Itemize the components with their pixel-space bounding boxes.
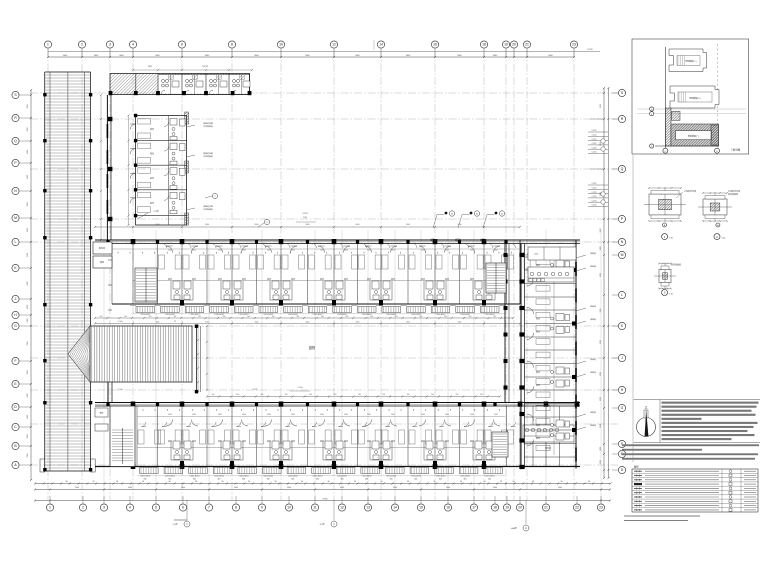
panel right dashed axis [717, 44, 719, 148]
grid bubble N right [618, 238, 625, 245]
svg-text:3600: 3600 [218, 414, 222, 416]
west wing columns on block [134, 114, 137, 117]
courtyard west wall [196, 326, 198, 392]
svg-text:3600: 3600 [344, 250, 348, 252]
svg-text:900: 900 [370, 316, 373, 318]
svg-text:C1820+M0921: C1820+M0921 [411, 314, 421, 316]
svg-text:J: J [621, 356, 623, 360]
svg-text:900: 900 [285, 394, 288, 396]
top overall dimension line [48, 51, 600, 53]
grid bubble 10 bottom [285, 504, 292, 511]
east wing per-room beds [536, 259, 550, 265]
svg-text:900: 900 [456, 394, 459, 396]
svg-text:21: 21 [525, 43, 529, 47]
detail 1 label [662, 234, 668, 240]
svg-text:3600: 3600 [421, 250, 425, 252]
svg-text:5400: 5400 [181, 487, 185, 489]
svg-text:12: 12 [340, 506, 344, 510]
detail panel flight 3 precast stair 1 [671, 124, 719, 146]
south wing bottom wall columns [131, 464, 136, 469]
svg-text:3600: 3600 [168, 414, 172, 416]
svg-text:14: 14 [379, 43, 383, 47]
svg-text:G: G [14, 324, 17, 328]
svg-text:北: 北 [645, 406, 648, 410]
legend table [632, 469, 758, 512]
svg-text:19: 19 [505, 506, 509, 510]
north strip room partitions [135, 74, 137, 95]
grid bubble 12 bottom [338, 504, 345, 511]
grid bubble 4 top [129, 41, 136, 48]
svg-text:5400: 5400 [493, 487, 497, 489]
west wing window marks left wall [106, 124, 108, 138]
grid bubble 13 bottom [364, 504, 371, 511]
svg-text:C1820+M0921: C1820+M0921 [214, 314, 224, 316]
grid bubble 21 bottom [542, 504, 549, 511]
svg-text:F: F [14, 359, 16, 363]
svg-text:3600: 3600 [494, 250, 498, 252]
north wing dimension chains below [95, 317, 513, 319]
east wing toilet clusters [556, 260, 564, 267]
svg-text:-1.500: -1.500 [297, 387, 302, 389]
svg-text:10: 10 [279, 43, 283, 47]
svg-text:900: 900 [407, 394, 410, 396]
svg-text:C2415: C2415 [592, 135, 597, 137]
svg-text:900: 900 [236, 394, 239, 396]
svg-text:900: 900 [358, 394, 361, 396]
svg-text:3300: 3300 [600, 247, 602, 251]
svg-text:3600: 3600 [267, 414, 271, 416]
svg-text:900: 900 [346, 316, 349, 318]
svg-text:3300: 3300 [27, 319, 29, 323]
extra vertical grid lines lower rows [103, 230, 105, 500]
svg-text:1:10: 1:10 [669, 238, 673, 240]
svg-text:3600: 3600 [242, 414, 246, 416]
svg-text:3300: 3300 [600, 104, 602, 108]
grid bubble N left [12, 187, 19, 194]
svg-text:C1820+M0921: C1820+M0921 [190, 314, 200, 316]
north wing stairwell [135, 268, 157, 302]
west wing room partitions [136, 140, 187, 142]
svg-text:3600: 3600 [367, 250, 371, 252]
svg-text:9000: 9000 [306, 322, 310, 324]
svg-text:C1820+M0921: C1820+M0921 [337, 314, 347, 316]
grid bubble M right [618, 251, 625, 258]
top dimension chain [48, 56, 574, 58]
svg-text:9000: 9000 [205, 224, 209, 226]
notes wide lines [622, 444, 759, 446]
bottom overall dimension [35, 500, 610, 502]
svg-text:C2415: C2415 [592, 200, 597, 202]
svg-text:36: 36 [354, 481, 356, 483]
column detail 1 drawing [649, 194, 681, 215]
south wing west service rooms [95, 408, 108, 417]
svg-text:C1820+M0921: C1820+M0921 [485, 314, 495, 316]
grid bubble R right [618, 115, 625, 122]
svg-text:9000: 9000 [356, 224, 360, 226]
detail panel ground line [655, 145, 719, 147]
east wing leader notes [576, 255, 586, 258]
stair detail panel frame [632, 39, 749, 154]
svg-text:3300: 3300 [27, 305, 29, 309]
south wing courtyard dim chain [207, 396, 500, 398]
grid bubble 3 top [106, 41, 113, 48]
south wing corner stair [492, 432, 508, 457]
grid bubble 21 top [523, 41, 530, 48]
grid bubble 18 top [480, 41, 487, 48]
svg-text:9000: 9000 [406, 322, 410, 324]
east wing toilet zone line [553, 260, 555, 455]
svg-text:3600: 3600 [320, 250, 324, 252]
general notes text rows [662, 402, 759, 404]
svg-text:36: 36 [484, 481, 486, 483]
detail panel flight 1 precast stair 2 [669, 49, 707, 72]
north strip toilet fixtures [162, 80, 165, 83]
svg-text:16: 16 [433, 43, 437, 47]
svg-text:J: J [15, 297, 17, 301]
svg-text:4: 4 [129, 506, 131, 510]
east wing outer wall [575, 240, 577, 469]
svg-text:36: 36 [513, 481, 515, 483]
east wing entry vestibule [528, 247, 576, 260]
south wing balcony rails hatched [140, 468, 159, 474]
svg-text:36: 36 [222, 481, 224, 483]
grid bubble D right [618, 466, 625, 473]
svg-text:5400: 5400 [128, 487, 132, 489]
svg-text:3300: 3300 [600, 424, 602, 428]
bottom dimension chain 1 [35, 483, 611, 485]
svg-text:C1820+M0921: C1820+M0921 [386, 314, 396, 316]
right outer dimension chain [608, 88, 610, 478]
walkway edge lines [44, 72, 46, 471]
svg-text:9000: 9000 [255, 322, 259, 324]
grid bubble 15 bottom [417, 504, 424, 511]
panel crossing grid lines [637, 108, 746, 110]
north wing balcony rails hatched [136, 307, 155, 313]
grid bubble J right [618, 354, 625, 361]
west wing leader notes [187, 125, 195, 127]
svg-text:3300: 3300 [27, 371, 29, 375]
svg-text:8: 8 [235, 506, 237, 510]
svg-text:900: 900 [149, 316, 152, 318]
grid bubble B left [12, 442, 19, 449]
svg-text:3300: 3300 [27, 228, 29, 232]
north strip top dim ticks [133, 69, 252, 71]
svg-text:1: 1 [47, 43, 49, 47]
svg-text:4: 4 [132, 43, 134, 47]
svg-text:900: 900 [198, 316, 201, 318]
svg-text:36: 36 [588, 481, 590, 483]
svg-text:3300: 3300 [27, 454, 29, 458]
east wing washroom top [528, 267, 574, 282]
svg-text:3300: 3300 [27, 128, 29, 132]
svg-text:Q: Q [621, 167, 624, 171]
grid bubble S right [618, 89, 625, 96]
north arrow compass [637, 418, 656, 437]
svg-text:C1820+M0921: C1820+M0921 [165, 314, 175, 316]
svg-text:900: 900 [260, 394, 263, 396]
east wing north stairwell [486, 263, 506, 293]
entrance stair side dim chain [197, 326, 199, 392]
grid bubble J left [12, 295, 19, 302]
east wing room partitions [525, 256, 577, 258]
svg-text:9000: 9000 [205, 322, 209, 324]
north wing corridor wall [95, 239, 580, 241]
svg-text:21: 21 [544, 506, 548, 510]
grid bubble 20 top [510, 41, 517, 48]
grid bubble 6 bottom [179, 504, 186, 511]
west wing inner dim chain [128, 116, 130, 226]
svg-text:3300: 3300 [600, 340, 602, 344]
svg-text:900: 900 [309, 394, 312, 396]
svg-text:3300: 3300 [27, 203, 29, 207]
svg-text:-1.500: -1.500 [117, 321, 122, 323]
svg-text:M: M [621, 253, 624, 257]
detail 3 label [662, 290, 668, 296]
svg-text:20: 20 [512, 43, 516, 47]
svg-text:6: 6 [182, 506, 184, 510]
svg-text:3300: 3300 [600, 447, 602, 451]
svg-text:900: 900 [382, 394, 385, 396]
column detail 3 drawing [659, 270, 671, 283]
grid bubble Q left [12, 137, 19, 144]
grid bubble 22 bottom [573, 504, 580, 511]
north wing room band bottom wall [112, 303, 520, 305]
panel left axis wall [665, 47, 667, 148]
svg-text:900: 900 [395, 316, 398, 318]
svg-text:C2415: C2415 [592, 147, 597, 149]
west corridor door marks [108, 259, 112, 261]
svg-text:3300: 3300 [27, 253, 29, 257]
grid bubble G left [12, 322, 19, 329]
svg-text:2100: 2100 [303, 217, 307, 219]
svg-text:36: 36 [328, 481, 330, 483]
grid bubble G right [618, 404, 625, 411]
svg-text:900: 900 [431, 394, 434, 396]
svg-text:36: 36 [500, 481, 502, 483]
grid bubble 9 bottom [258, 504, 265, 511]
east wing corridor wall [520, 244, 522, 469]
svg-text:7: 7 [208, 506, 210, 510]
grid bubble 18 bottom [491, 504, 498, 511]
svg-text:16: 16 [446, 506, 450, 510]
svg-text:3300: 3300 [600, 229, 602, 233]
east wing courtyard wall columns [504, 253, 508, 257]
svg-text:3300: 3300 [27, 415, 29, 419]
svg-text:3300: 3300 [27, 105, 29, 109]
svg-text:900: 900 [247, 316, 250, 318]
grid bubble F right [618, 440, 625, 447]
courtyard inner dim chain [206, 326, 208, 390]
grid bubble 19 top [502, 41, 509, 48]
svg-text:3600: 3600 [291, 414, 295, 416]
west wing toilet zone divider [168, 116, 170, 226]
svg-text:C1820+M0921: C1820+M0921 [460, 314, 470, 316]
grid bubble P left [12, 159, 19, 166]
svg-text:3600: 3600 [391, 414, 395, 416]
detail panel side markers [650, 107, 654, 111]
bottom dimension chain 2 [35, 489, 610, 491]
grid bubble Q right [618, 165, 625, 172]
svg-text:5400: 5400 [446, 487, 450, 489]
svg-text:87300: 87300 [323, 499, 328, 501]
south wing corner washroom [523, 425, 574, 442]
svg-text:C2415: C2415 [302, 213, 308, 215]
svg-text:900: 900 [124, 316, 127, 318]
svg-text:C2415: C2415 [592, 143, 597, 145]
covered walkway west strip with pavement hatch [45, 72, 91, 471]
svg-text:5400: 5400 [393, 487, 397, 489]
grand entrance stair treads [90, 326, 192, 382]
svg-text:1: 1 [49, 506, 51, 510]
svg-text:5400: 5400 [340, 487, 344, 489]
svg-text:9000: 9000 [458, 224, 462, 226]
svg-text:9000: 9000 [255, 224, 259, 226]
grid bubble S left [12, 91, 19, 98]
grid bubble 8 bottom [232, 504, 239, 511]
svg-text:G: G [621, 406, 624, 410]
window leader clusters right chain [588, 131, 608, 133]
detail 2 label [714, 234, 720, 240]
grid bubble 5 bottom [152, 504, 159, 511]
svg-text:47700: 47700 [587, 49, 593, 51]
svg-text:C2415: C2415 [592, 205, 597, 207]
grid bubble 10 top [277, 41, 284, 48]
svg-text:2: 2 [82, 506, 84, 510]
grid bubble F left [12, 357, 19, 364]
svg-text:3600: 3600 [242, 250, 246, 252]
svg-text:3600: 3600 [291, 250, 295, 252]
svg-text:C3: C3 [174, 321, 176, 323]
svg-text:9000: 9000 [406, 224, 410, 226]
svg-text:3600: 3600 [470, 414, 474, 416]
svg-text:3600: 3600 [192, 414, 196, 416]
grid bubble E right [618, 450, 625, 457]
svg-text:10: 10 [287, 506, 291, 510]
bottom notes under legend [624, 515, 700, 517]
svg-text:23: 23 [572, 43, 576, 47]
grid bubble 2 bottom [79, 504, 86, 511]
east wing courtyard wall [504, 244, 506, 403]
north service strip hatched [110, 74, 250, 95]
east wing window marks outer wall [575, 262, 577, 276]
west wing toilet fixtures [170, 119, 177, 126]
svg-text:36: 36 [275, 481, 277, 483]
svg-text:20: 20 [518, 506, 522, 510]
svg-text:3600: 3600 [494, 414, 498, 416]
svg-text:C1820+M0921: C1820+M0921 [313, 314, 323, 316]
svg-text:3600: 3600 [391, 250, 395, 252]
svg-text:9000: 9000 [306, 224, 310, 226]
south wing under-wall sill line [137, 416, 505, 418]
svg-text:5400: 5400 [287, 487, 291, 489]
grid bubble 16 bottom [444, 504, 451, 511]
grid bubble 17 bottom [470, 504, 477, 511]
grid bubble L right [618, 291, 625, 298]
grid bubble 20 bottom [516, 504, 523, 511]
grid bubble 3 bottom [100, 504, 107, 511]
svg-text:C2415: C2415 [592, 192, 597, 194]
svg-text:9: 9 [261, 506, 263, 510]
svg-text:3600: 3600 [320, 414, 324, 416]
svg-text:900: 900 [480, 394, 483, 396]
north side porch leader markers [445, 212, 448, 215]
north side door arcs on corridor wall [429, 239, 437, 241]
svg-text:18: 18 [482, 43, 486, 47]
grid bubble H right [618, 386, 625, 393]
svg-text:Q: Q [14, 139, 17, 143]
grid bubble 2 top [78, 41, 85, 48]
svg-text:1:10: 1:10 [722, 238, 726, 240]
svg-text:13: 13 [366, 506, 370, 510]
grid bubble 4 bottom [126, 504, 133, 511]
section flag 3 [525, 500, 527, 524]
svg-text:5400: 5400 [558, 487, 562, 489]
grid bubble P right [618, 215, 625, 222]
grid bubble 23 top [570, 41, 577, 48]
column detail 2 drawing [703, 199, 727, 215]
grid bubble 19 bottom [503, 504, 510, 511]
svg-text:36: 36 [142, 481, 144, 483]
svg-text:庭院: 庭院 [309, 345, 316, 350]
svg-text:36: 36 [561, 481, 563, 483]
grid bubble K right [618, 322, 625, 329]
west wing smoke shafts [185, 112, 189, 124]
svg-text:900: 900 [321, 316, 324, 318]
svg-text:6: 6 [181, 43, 183, 47]
svg-text:5400: 5400 [234, 487, 238, 489]
svg-text:3600: 3600 [367, 414, 371, 416]
svg-text:36: 36 [301, 481, 303, 483]
svg-text:900: 900 [272, 316, 275, 318]
walkway junction columns [43, 93, 46, 96]
svg-text:900: 900 [493, 316, 496, 318]
svg-text:12: 12 [332, 43, 336, 47]
svg-text:900: 900 [444, 316, 447, 318]
grid bubble D left [12, 403, 19, 410]
svg-text:C1820+M0921: C1820+M0921 [436, 314, 446, 316]
svg-text:C2415: C2415 [592, 188, 597, 190]
south wing room partitions [136, 406, 138, 467]
svg-text:900: 900 [469, 316, 472, 318]
svg-text:2: 2 [81, 43, 83, 47]
electrical rooms west end of north wing [93, 242, 112, 254]
svg-text:900: 900 [223, 316, 226, 318]
svg-text:3300: 3300 [27, 150, 29, 154]
section flag 2 [333, 500, 335, 520]
svg-text:11: 11 [313, 506, 317, 510]
svg-text:900: 900 [334, 394, 337, 396]
south wing per-room door arcs and beds [142, 422, 147, 427]
grid bubble 12 top [330, 41, 337, 48]
svg-text:C2415: C2415 [592, 130, 597, 132]
svg-text:8: 8 [231, 43, 233, 47]
svg-text:C2415: C2415 [592, 152, 597, 154]
south wing corridor columns [131, 402, 136, 407]
grid bubble 23 bottom [597, 504, 604, 511]
svg-text:900: 900 [419, 316, 422, 318]
south wing window mullion specks [142, 409, 144, 411]
walkway bottom platform [40, 459, 45, 472]
north wing corridor columns [131, 239, 136, 244]
right dimension chain [603, 88, 605, 478]
grid bubble L left [12, 238, 19, 245]
svg-text:36: 36 [434, 481, 436, 483]
svg-text:C1820+M0921: C1820+M0921 [288, 314, 298, 316]
grid bubble M left [12, 214, 19, 221]
south wing corridor wall [95, 402, 580, 404]
detail panel axis bubbles [663, 148, 668, 153]
svg-text:C2415: C2415 [592, 196, 597, 198]
